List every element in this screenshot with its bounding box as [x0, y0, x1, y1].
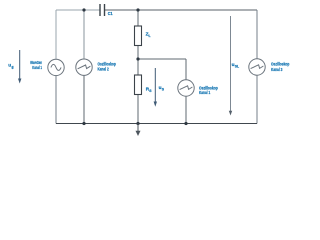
svg-text:S: S: [149, 89, 152, 93]
svg-text:Kanal 3: Kanal 3: [271, 67, 283, 72]
junction dot middle node: [136, 57, 139, 60]
svg-text:Kanal 1: Kanal 1: [32, 65, 42, 70]
wire top rail right segment: [105, 9, 258, 11]
label u_s: [159, 85, 165, 91]
label Z_L: [146, 31, 151, 37]
resistor Z_L: [135, 26, 142, 46]
wire left branch lower: [55, 76, 57, 124]
junction dot bottom scope1: [184, 122, 187, 125]
svg-text:g: g: [12, 65, 14, 69]
wire scope1 vertical upper: [185, 59, 187, 80]
wire channel2 branch upper: [83, 10, 85, 59]
wire scope1 horizontal: [138, 58, 186, 60]
wire top rail left segment: [56, 9, 100, 11]
label Oszilloskop Kanal 3: [271, 62, 289, 72]
svg-text:Oszilloskop: Oszilloskop: [271, 62, 289, 67]
junction dot bottom channel2: [82, 122, 85, 125]
voltage arrow u_SL: [229, 16, 232, 116]
AC source U1 WaveGen circle: [48, 59, 64, 75]
label R_s: [146, 87, 152, 93]
capacitor C1: [100, 4, 105, 16]
junction dot top middle: [136, 8, 139, 11]
label Oszilloskop Kanal 2: [98, 62, 116, 72]
wire middle branch between ZL and Rs: [137, 46, 139, 76]
ground: [136, 124, 141, 137]
svg-text:L: L: [149, 34, 151, 38]
wire right branch upper: [256, 10, 258, 59]
svg-text:SL: SL: [235, 65, 239, 69]
svg-text:Kanal 2: Kanal 2: [98, 67, 109, 72]
svg-text:C1: C1: [108, 11, 113, 16]
wire bottom rail: [56, 123, 257, 125]
wire left branch upper: [55, 10, 57, 59]
junction dot bottom middle: [136, 122, 139, 125]
label u_g: [8, 63, 13, 70]
svg-text:Kanal 1: Kanal 1: [199, 90, 210, 95]
label Oszilloskop Kanal 1: [199, 85, 218, 95]
wire right branch lower: [256, 75, 258, 123]
wire channel2 branch lower: [83, 75, 85, 123]
scope U2 Oszilloskop Kanal 2 circle: [76, 59, 92, 75]
voltage arrow u_g: [18, 50, 21, 84]
resistor R_s: [135, 75, 142, 95]
voltage arrow u_s: [154, 68, 157, 107]
wire scope1 vertical lower: [185, 96, 187, 123]
wire middle branch bottom: [137, 95, 139, 124]
scope U3 Oszilloskop Kanal 1 circle: [178, 80, 194, 96]
scope U4 Oszilloskop Kanal 3 circle: [249, 59, 265, 75]
junction dot top channel2: [82, 8, 85, 11]
svg-text:S: S: [162, 87, 165, 91]
label u_SL: [232, 62, 240, 68]
wire middle branch top: [137, 10, 139, 26]
label WaveGen Kanal 1: [30, 60, 42, 70]
